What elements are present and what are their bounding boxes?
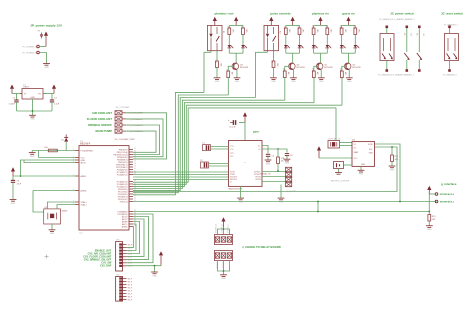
crystal Q2 32kHz: [328, 138, 352, 148]
resistor R9 base: [225, 70, 232, 79]
resistor R4: [240, 25, 247, 34]
svg-text:VI: VI: [24, 94, 26, 96]
ground C6: [10, 200, 17, 205]
svg-text:PC_HEADER_2: PC_HEADER_2: [444, 23, 458, 26]
resistor R12: [325, 25, 332, 34]
svg-text:R10: R10: [282, 69, 284, 72]
svg-text:PC_HEADER_B×2_HEADER_BEADER_2: PC_HEADER_B×2_HEADER_BEADER_2: [378, 74, 414, 77]
pin PC_POWER-1: [22, 45, 39, 48]
wire VCC pin net: [24, 160, 75, 163]
resistor R13 base: [311, 69, 318, 79]
svg-text:CV2_DAP: CV2_DAP: [100, 265, 112, 268]
svg-text:AGND: AGND: [122, 225, 128, 228]
power flag 5V regulator output: [52, 85, 56, 94]
switch S1 body: [380, 34, 394, 61]
svg-text:BC547B: BC547B: [240, 67, 249, 69]
svg-text:GND: GND: [30, 97, 35, 99]
wire VCC to IC2: [13, 175, 75, 177]
wire LED ladder bottom planteus root: [229, 52, 243, 54]
svg-text:1K5: 1K5: [288, 29, 290, 32]
svg-text:X1: X1: [354, 144, 356, 146]
pad power switch top 2: [406, 26, 409, 29]
wire relay K2 output: [267, 51, 269, 53]
svg-text:SV_P: SV_P: [128, 290, 133, 292]
svg-text:gsm: gsm: [253, 130, 259, 134]
svg-text:JC reset switch: JC reset switch: [441, 11, 463, 15]
LED red guest rio: [354, 35, 360, 54]
connector JP2 body: [116, 275, 133, 302]
svg-text:V-: V-: [230, 181, 232, 183]
svg-text:1K5: 1K5: [302, 29, 304, 32]
wire choke ground stub: [223, 261, 225, 275]
voltage regulator IC1 7805T: [20, 84, 45, 99]
svg-text:PC_POWER-1: PC_POWER-1: [22, 46, 37, 48]
connector X2 choke top: [215, 235, 233, 245]
power flag IC3: [317, 146, 321, 158]
svg-text:1K5: 1K5: [344, 29, 346, 32]
svg-text:GND: GND: [238, 202, 243, 204]
svg-text:PC2(ADC2): PC2(ADC2): [117, 173, 128, 176]
svg-text:30: 30: [134, 198, 136, 200]
svg-text:AIR COOLANT: AIR COOLANT: [92, 111, 112, 115]
origin mark: [45, 255, 49, 259]
wire block2 relay drop: [256, 52, 268, 97]
svg-text:SW: SW: [422, 33, 424, 36]
wire SV1 pin 1 to IC2: [126, 113, 167, 159]
ground IC3: [358, 170, 365, 175]
svg-text:R15: R15: [353, 26, 355, 29]
ground battery: [335, 169, 342, 175]
svg-text:1K5: 1K5: [316, 29, 318, 32]
svg-text:BC547B: BC547B: [324, 67, 333, 69]
text choke wire names bottom: [216, 262, 224, 269]
connector X3 choke bottom: [215, 251, 233, 261]
wire base planteus root: [228, 66, 233, 71]
wire AGND net: [33, 190, 75, 192]
svg-text:BC547B: BC547B: [296, 67, 305, 69]
svg-text:PC_HEADER_B×2_HEADER_BEADER_1: PC_HEADER_B×2_HEADER_BEADER_1: [379, 18, 415, 21]
svg-text:4K7: 4K7: [316, 72, 318, 75]
resistor R2 pulldown: [214, 51, 221, 78]
wire IC4 V+ to C4: [262, 146, 268, 154]
resistor R1 reset pullup: [44, 147, 57, 152]
LED green planteus root: [228, 35, 234, 54]
svg-text:SV_COOLANT_PWR: SV_COOLANT_PWR: [115, 138, 135, 141]
svg-text:BC547B: BC547B: [352, 67, 361, 69]
svg-text:GND: GND: [221, 278, 226, 280]
wire interface pulldown link: [428, 194, 430, 212]
svg-text:R2: R2: [214, 61, 216, 63]
svg-text:C8: C8: [290, 155, 293, 157]
svg-text:C6: C6: [17, 180, 20, 182]
resistor R16 base: [339, 69, 346, 79]
svg-text:20: 20: [134, 168, 136, 170]
svg-text:1K5: 1K5: [232, 29, 234, 32]
wire LED ladder top pulse override: [286, 24, 300, 26]
svg-text:JC power switch: JC power switch: [390, 11, 414, 15]
wire ladder top planteus rio: [314, 24, 328, 26]
svg-text:pulse override: pulse override: [270, 11, 291, 15]
wire block3 base drop: [313, 77, 315, 103]
svg-text:INTERFACE-2: INTERFACE-2: [440, 193, 455, 196]
connector SV1 pin 2: [115, 117, 144, 121]
resistor R5 pulldown: [271, 51, 278, 78]
wire IC2 to IC4 row 4: [133, 179, 229, 181]
resistor R11: [277, 148, 286, 171]
resistor R18 pulldown: [428, 212, 436, 226]
wire IC2 to JP1 pin 1: [127, 214, 154, 263]
relay K2: [264, 25, 281, 50]
svg-text:1K5: 1K5: [330, 29, 332, 32]
svg-text:AVCC: AVCC: [81, 161, 87, 164]
wire IC2 to JP1 pin 6: [127, 227, 134, 248]
connector SV1 pin 3: [115, 123, 144, 127]
wire collector guest rio: [347, 53, 349, 62]
svg-text:15: 15: [134, 156, 136, 158]
svg-text:GND: GND: [266, 163, 271, 165]
ground transistor Q6: [290, 78, 297, 83]
svg-text:PD5(T1): PD5(T1): [120, 201, 128, 203]
svg-text:MAIN PUMP: MAIN PUMP: [95, 129, 112, 133]
wire block1 base drop: [227, 79, 229, 95]
transistor Q5: [232, 63, 249, 70]
ground regulator: [29, 115, 36, 120]
ground power input: [43, 64, 50, 69]
wire LED ladder bottom pulse override: [286, 52, 300, 54]
relay K1: [208, 25, 225, 50]
resistor R7: [297, 25, 304, 34]
svg-text:0.1uF: 0.1uF: [54, 104, 60, 106]
wire IC3 ground: [360, 166, 362, 170]
wire SCL long net to RTC and interface: [133, 144, 437, 202]
capacitor C2m: [200, 160, 229, 168]
pin PC_POWER-2: [22, 51, 39, 54]
svg-text:GND: GND: [319, 81, 324, 83]
connector SV1 pin 4: [115, 129, 144, 133]
svg-text:VBAT: VBAT: [354, 151, 360, 154]
LED red planteus root: [241, 35, 247, 54]
power flag guest rio: [346, 17, 350, 26]
ground X1: [278, 198, 285, 203]
svg-text:GND: GND: [11, 203, 16, 205]
svg-text:47uF: 47uF: [17, 183, 22, 185]
switch S4 body: [445, 34, 459, 61]
svg-text:SV_P: SV_P: [128, 244, 133, 246]
svg-text:+: +: [228, 119, 230, 122]
svg-text:X2: X2: [354, 147, 356, 149]
wire emitter planteus root: [236, 70, 238, 78]
LED green planteus rio: [312, 35, 318, 54]
battery B1: [331, 162, 352, 183]
wire driver bundle 7: [133, 108, 336, 182]
svg-text:V+: V+: [258, 145, 261, 147]
resistor R3: [227, 25, 234, 34]
wire switch S4 bottom: [449, 61, 451, 70]
svg-text:D1: D1: [61, 139, 64, 141]
wire collector planteus rio: [319, 53, 321, 62]
capacitor C8: [285, 154, 294, 159]
pad reset switch bottom: [448, 69, 451, 72]
switch S2 lever: [403, 28, 412, 69]
svg-text:R3: R3: [227, 27, 229, 29]
wire IC3 power: [319, 157, 352, 159]
wire base guest rio: [342, 66, 345, 71]
wire SV1 pin 4 to IC2: [126, 131, 156, 152]
power flag LEDs pulse override: [291, 17, 295, 26]
pad power switch top 3: [418, 26, 421, 29]
wire IC4 VCC: [244, 123, 246, 141]
power flag +12V: [44, 32, 48, 47]
svg-text:C2: C2: [12, 97, 15, 99]
svg-text:R4: R4: [240, 27, 242, 29]
svg-text:SV_COOLANT: SV_COOLANT: [116, 106, 131, 109]
wire block4 base drop: [341, 77, 343, 105]
svg-text:GND: GND: [271, 81, 276, 83]
wire regulator ground stub: [32, 99, 34, 115]
ground transistor Q5: [234, 78, 241, 83]
svg-text:GND: GND: [30, 119, 35, 121]
wire choke power stub: [223, 227, 225, 235]
IC2 right pins: [113, 148, 135, 228]
wire PC_POWER-2 to ground: [39, 53, 46, 64]
wire PC_POWER-1 to +12V: [39, 46, 46, 48]
svg-text:JP_power supply 12V: JP_power supply 12V: [30, 24, 63, 28]
LED red pulse override: [298, 35, 304, 54]
svg-text:16: 16: [134, 158, 136, 160]
wire AGND down to crystal shield: [33, 191, 44, 213]
connector X1 DB9: [286, 167, 297, 193]
svg-text:R11: R11: [311, 26, 313, 29]
ground relay K1: [214, 78, 221, 83]
wire IC2 to IC4 row 1: [133, 171, 229, 173]
svg-text:X1_F09HP: X1_F09HP: [286, 191, 296, 193]
svg-text:GND: GND: [427, 229, 432, 231]
ground R17: [389, 166, 396, 171]
svg-text:R9: R9: [225, 70, 227, 72]
svg-text:JP1: JP1: [116, 239, 120, 241]
fuse F1: [38, 31, 43, 39]
svg-text:CHOKE_A: CHOKE_A: [215, 224, 218, 233]
ic IC3 RTC body: [352, 140, 375, 167]
svg-text:SCL: SCL: [369, 149, 373, 151]
svg-text:C1+: C1+: [230, 145, 235, 147]
wire reset net: [32, 150, 75, 152]
wire switch S4 top: [449, 28, 451, 33]
wire collector planteus root: [235, 53, 237, 62]
svg-text:SV_P: SV_P: [128, 299, 133, 301]
wire ladder top guest rio: [342, 24, 356, 26]
connector SV1 pin 1: [115, 111, 144, 115]
wire driver bundle 3: [133, 98, 256, 191]
svg-text:AGND: AGND: [81, 189, 87, 192]
transistor Q2: [344, 63, 361, 70]
svg-text:1K5: 1K5: [245, 29, 247, 32]
capacitor C2 0.33uF: [9, 94, 19, 112]
svg-text:C3: C3: [54, 97, 57, 99]
svg-text:V-: V-: [258, 149, 260, 151]
wire SDA long net to RTC: [133, 147, 397, 192]
wire IC4 ground: [240, 186, 242, 198]
wire cross link: [317, 201, 319, 213]
LED green pulse override: [284, 35, 290, 54]
svg-text:PC_POWER-2: PC_POWER-2: [22, 52, 37, 54]
svg-text:GND: GND: [361, 164, 366, 166]
crystal Q1 16MHz shielded block: [44, 207, 68, 224]
wire LED ladder top planteus root: [229, 24, 243, 26]
power flag JP1: [159, 251, 163, 266]
wire base planteus rio: [314, 66, 317, 71]
svg-text:SERIAL_PC: SERIAL_PC: [260, 172, 272, 175]
connector JP1 body: [116, 242, 133, 271]
svg-text:g_interface: g_interface: [441, 182, 457, 186]
wire AVCC net: [21, 160, 76, 176]
svg-text:4K7: 4K7: [230, 72, 232, 75]
power flag 5V for IC2: [11, 167, 15, 176]
ground transistor Q2: [346, 78, 353, 83]
pad reset switch top: [448, 26, 451, 29]
pad power switch top 1: [386, 26, 389, 29]
svg-text:FLOOR COOLANT: FLOOR COOLANT: [87, 117, 112, 121]
wire XTAL1: [47, 202, 75, 209]
svg-text:R5: R5: [271, 61, 273, 63]
svg-text:GND: GND: [235, 81, 240, 83]
svg-text:R18: R18: [432, 216, 437, 218]
ground choke: [220, 275, 227, 280]
svg-text:GND: GND: [347, 81, 352, 83]
wire block1 relay drop: [204, 52, 211, 92]
svg-text:R12: R12: [325, 26, 327, 29]
svg-text:J_CHOKE TO RELAY BOARD: J_CHOKE TO RELAY BOARD: [242, 245, 281, 249]
svg-text:R6: R6: [283, 27, 285, 29]
power flag LEDs planteus root: [234, 17, 238, 26]
svg-text:1K5: 1K5: [358, 29, 360, 32]
svg-text:16MHz: 16MHz: [62, 211, 68, 213]
svg-text:R14: R14: [339, 26, 341, 29]
svg-text:XTAL2: XTAL2: [81, 203, 88, 206]
wire T1OUT to X1: [262, 171, 286, 173]
pin INTERFACE-1: [435, 200, 455, 203]
svg-text:SV_P: SV_P: [128, 284, 133, 286]
wire GND pin net: [39, 157, 76, 159]
svg-text:BATT/PX_LUNOPIN: BATT/PX_LUNOPIN: [331, 179, 350, 182]
svg-text:18: 18: [134, 163, 136, 165]
svg-text:10K: 10K: [395, 159, 399, 161]
resistor R11: [311, 25, 318, 34]
wire capacitor ground rail: [17, 110, 53, 112]
wire switch S1 top: [386, 28, 388, 33]
wire SV1 pin 2 to IC2: [126, 119, 163, 157]
pin INTERFACE-2: [435, 193, 455, 196]
svg-text:SV_P: SV_P: [128, 278, 133, 280]
svg-text:F1: F1: [38, 31, 40, 33]
svg-text:SW: SW: [410, 33, 412, 36]
svg-text:CHOKE_B: CHOKE_B: [222, 224, 224, 233]
wire ladder bottom guest rio: [342, 52, 356, 54]
svg-text:GND: GND: [30, 156, 35, 158]
ground reset: [29, 151, 36, 159]
svg-text:AREF: AREF: [81, 175, 87, 178]
LED green guest rio: [340, 35, 346, 54]
power flag 12V regulator input: [10, 85, 14, 94]
svg-text:INTERFACE-1: INTERFACE-1: [440, 200, 455, 203]
resistor R10 base: [282, 69, 289, 79]
svg-text:R13: R13: [311, 69, 313, 72]
svg-text:SV_P: SV_P: [128, 293, 133, 295]
pad power switch bottom 3: [418, 69, 421, 72]
wire JP1 power row: [127, 265, 162, 267]
power flag IC4: [243, 112, 247, 122]
ground C4: [265, 160, 272, 165]
wire IC2 to JP1 pin 5: [127, 224, 137, 251]
wire R2IN to X1: [262, 170, 286, 181]
capacitor C1: [202, 143, 229, 151]
svg-text:GND: GND: [285, 163, 290, 165]
wire X1 ground: [280, 185, 282, 198]
wire IC2 to JP1 pin 2: [127, 217, 149, 260]
svg-text:7805T: 7805T: [23, 87, 30, 89]
resistor R15: [353, 25, 360, 34]
wire SV1 pin 3 to IC2: [126, 125, 160, 155]
microcontroller IC2 MEGA8-P body: [79, 141, 129, 234]
svg-text:guest rio: guest rio: [342, 11, 355, 15]
svg-text:C1-: C1-: [230, 149, 234, 151]
capacitor C4: [266, 154, 275, 160]
wire driver bundle 2: [133, 95, 228, 193]
wire emitter planteus rio: [320, 70, 322, 78]
svg-text:29: 29: [134, 195, 136, 197]
ground IC4: [237, 198, 244, 203]
wire driver bundle 5: [133, 103, 314, 187]
svg-text:19: 19: [134, 166, 136, 168]
IC2 left pins: [73, 149, 93, 206]
svg-text:planteus root: planteus root: [214, 11, 233, 15]
svg-text:SDA: SDA: [369, 151, 374, 154]
wire choke power bar: [218, 229, 230, 235]
power flag interface: [427, 186, 431, 194]
transistor Q6: [289, 63, 306, 70]
wire interrupt long net: [133, 211, 429, 213]
wire ladder bottom planteus rio: [314, 52, 328, 54]
pad power switch bottom 1: [386, 69, 389, 72]
power flag relay K2: [269, 17, 273, 26]
transistor Q1: [316, 63, 333, 70]
svg-text:R17: R17: [395, 156, 400, 158]
wire block2 base drop: [284, 79, 286, 100]
svg-text:*: *: [245, 162, 246, 165]
power flag planteus rio: [318, 17, 322, 26]
svg-text:GND: GND: [44, 67, 49, 69]
svg-text:C5 1uF: C5 1uF: [229, 126, 236, 128]
svg-text:0.33uF: 0.33uF: [9, 104, 16, 106]
svg-text:GND: GND: [390, 169, 395, 171]
svg-text:SQW: SQW: [368, 144, 373, 146]
power flag choke: [221, 217, 225, 227]
ground relay K2: [270, 78, 277, 83]
wire relay K1 output: [210, 51, 212, 53]
wire IC2 to JP1 pin 3: [127, 219, 145, 257]
svg-text:CHOKE_C: CHOKE_C: [228, 224, 230, 233]
svg-text:C4: C4: [272, 156, 275, 158]
svg-text:S3: S3: [416, 33, 418, 35]
wire base pulse override: [285, 66, 290, 71]
wire IC2 to IC4 row 3: [133, 176, 229, 178]
svg-text:14: 14: [134, 153, 136, 155]
diode D1 reset: [61, 134, 68, 150]
svg-text:IC2: IC2: [80, 232, 84, 234]
wire driver bundle 6: [133, 105, 342, 184]
ground transistor Q1: [318, 78, 325, 83]
resistor R6: [283, 25, 290, 34]
